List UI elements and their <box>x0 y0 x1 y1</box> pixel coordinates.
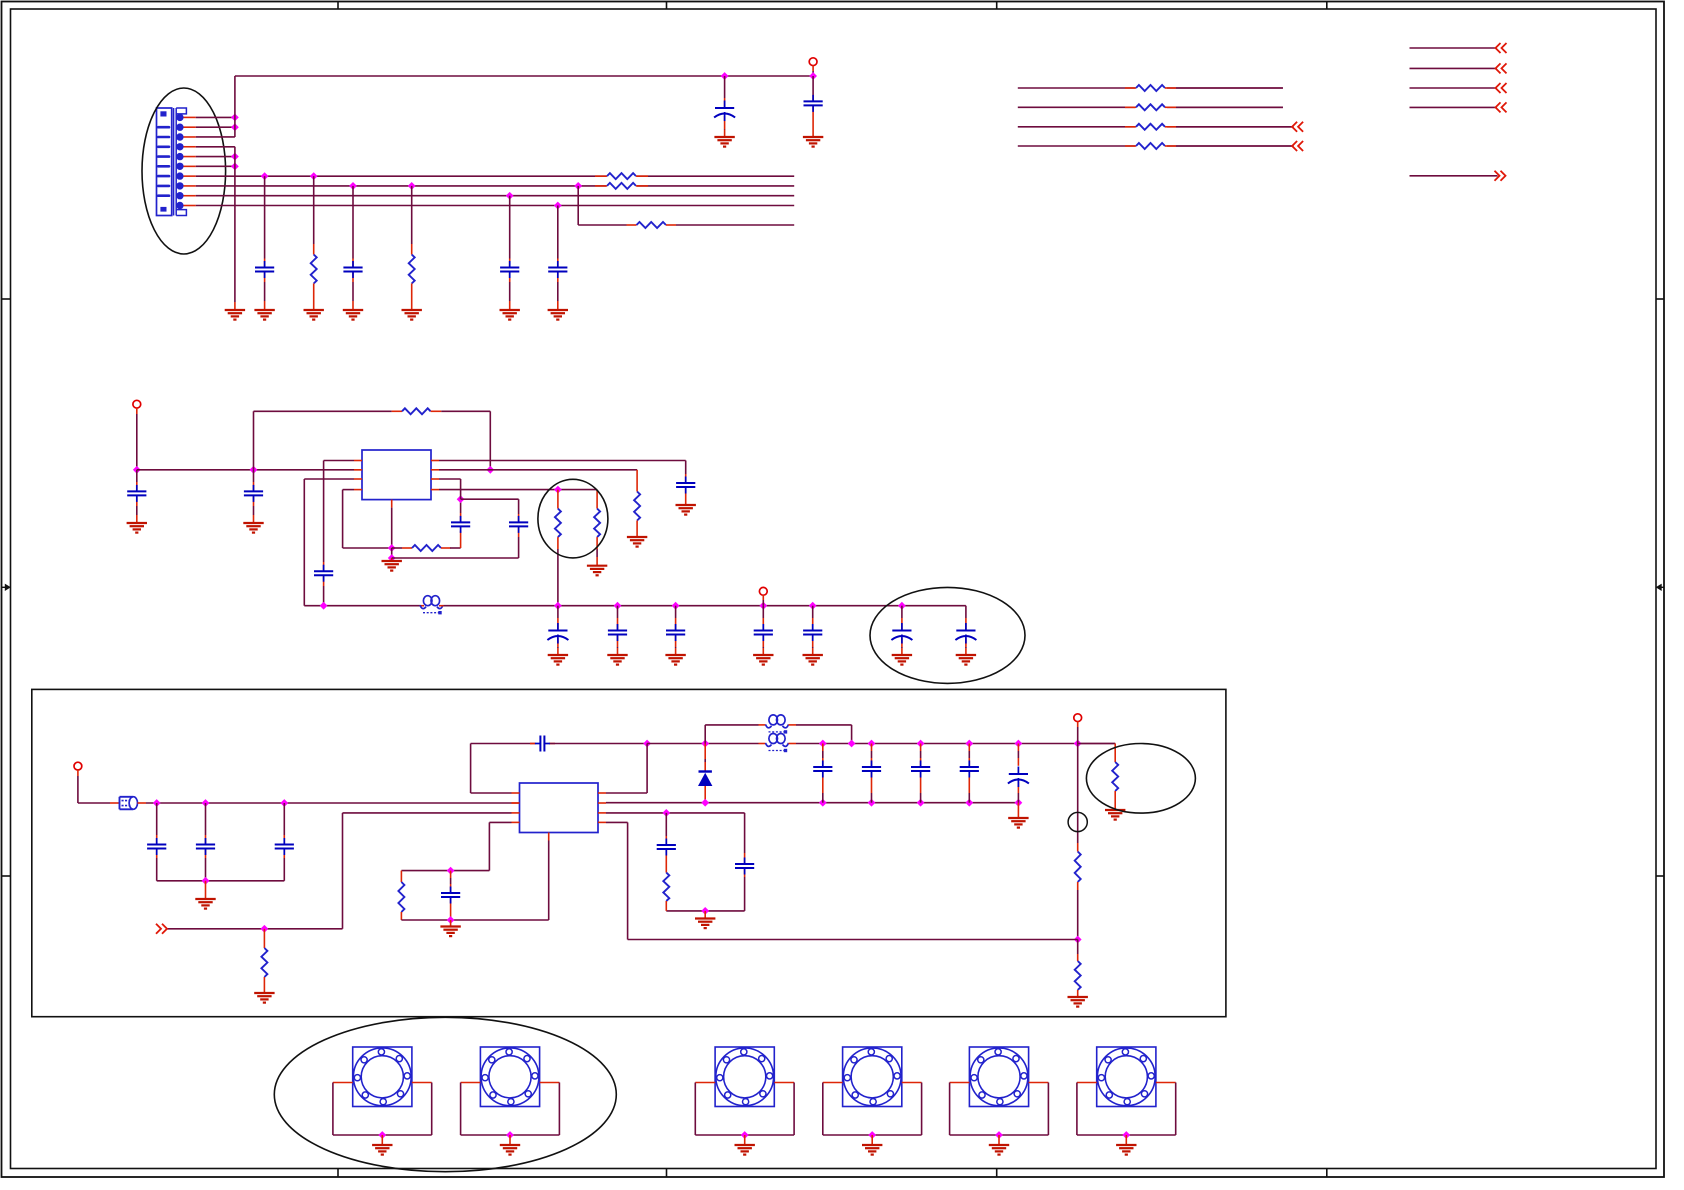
capacitor C (bus filter) at x=901.9 polarized <box>901 606 903 618</box>
capacitor at x=969.3 <box>968 744 970 752</box>
connector J1 pin 9 <box>176 192 183 199</box>
wire U1 pin L4 loop <box>343 489 354 491</box>
capacitor C15 and resistor R11 branch <box>665 813 667 836</box>
ground below B5 <box>989 1144 1009 1146</box>
connector J1 pin 5 <box>176 153 183 160</box>
wire U2 pin R1 up to feedback line <box>606 792 647 794</box>
ground below R12 <box>254 992 274 994</box>
connector J1 pin 3 <box>176 133 183 140</box>
resistor R2 on row8 <box>408 182 416 190</box>
connector J1 pin 2 <box>176 124 183 131</box>
net wire group-A row1 <box>1018 87 1283 89</box>
capacitor C4 on row8 <box>349 182 357 190</box>
ground below B1 <box>372 1144 392 1146</box>
capacitor C3 on row7 <box>261 172 269 180</box>
annotation circle on feedback node <box>1068 812 1087 831</box>
ground below C3 <box>254 309 274 311</box>
wire pin3 to node <box>196 136 235 138</box>
off-sheet connector chevron <box>1496 102 1501 112</box>
wire U1 pin R1 to capacitor C12 <box>439 460 686 462</box>
border zone ticks <box>337 2 339 10</box>
resistor R7 divider <box>596 490 598 509</box>
regulator U1 <box>362 450 431 500</box>
wire vertical pins4-6 down to ground <box>234 147 236 302</box>
output bus wire <box>304 605 420 607</box>
transducer B5 wiring <box>950 1082 970 1084</box>
ground below R5 <box>627 536 647 538</box>
power port P5 <box>1074 714 1082 722</box>
capacitor C14 snubber <box>735 863 754 865</box>
input filter capacitor at x=284.3 <box>283 803 285 835</box>
connector J1 pin 6 <box>176 163 183 170</box>
border centre arrow left <box>2 586 10 588</box>
resistor R (series) group-A row3 <box>1125 126 1136 128</box>
top rail wire <box>235 75 813 77</box>
line C down to ground <box>1017 803 1019 818</box>
connector J1 pin 7 <box>176 172 183 179</box>
capacitor at x=822.8 <box>822 744 824 752</box>
ground below C6 <box>548 309 568 311</box>
branch wire with series resistor R <box>578 224 626 226</box>
ground below C2 <box>803 136 823 138</box>
transducer B4 body <box>843 1047 902 1107</box>
ground below bus capacitor <box>956 654 976 656</box>
resistor R (series) group-A row1 <box>1125 87 1136 89</box>
capacitor at x=1018.4 polarized <box>1017 744 1019 752</box>
inductor L3 upper <box>759 724 766 726</box>
bottom rail wire <box>628 939 1078 941</box>
feedback line with series capacitor C13 <box>471 743 536 745</box>
connector J1 body <box>157 108 172 216</box>
resistor R4 compensation <box>392 547 402 549</box>
ground below B2 <box>500 1144 520 1146</box>
resistor R (series) on bus row <box>595 175 607 177</box>
off-sheet connector chevron <box>1292 141 1297 151</box>
capacitor C (bus filter) at x=557.9 polarized <box>557 606 559 618</box>
net wire group-B row3 <box>1410 87 1498 89</box>
off-sheet connector chevron right <box>1495 171 1500 181</box>
power port P4 <box>74 762 82 770</box>
resistor R (series) group-A row4 <box>1125 145 1136 147</box>
resistor R1 on row7 <box>310 172 318 180</box>
wire pin4 to node <box>196 146 235 148</box>
wire pin6 to node <box>196 165 235 167</box>
resistor R5 to ground <box>636 470 638 492</box>
off-sheet chevron input <box>156 924 161 934</box>
resistor R (series) group-A row2 <box>1125 106 1136 108</box>
junction row8 to lower branch <box>574 182 582 190</box>
ground below snubber <box>695 917 715 919</box>
off-sheet connector chevron <box>1292 122 1297 132</box>
wire pin2 to node <box>196 126 235 128</box>
power port P1 <box>809 58 817 66</box>
bus row pin8 <box>196 185 794 187</box>
capacitor C11 loop <box>461 498 519 500</box>
ground for pins4-6 net <box>225 309 245 311</box>
resistor R13 <box>400 871 402 882</box>
capacitor C (bus filter) at x=617.5 <box>617 606 619 618</box>
ground below RC network <box>440 925 460 927</box>
annotation ellipse around R10 <box>1086 744 1195 814</box>
output line C of U2 <box>606 802 1018 804</box>
U1 bottom pin to ground <box>391 500 393 508</box>
net wire group-A row3 <box>1018 126 1294 128</box>
annotation ellipse around B1 B2 <box>274 1017 616 1171</box>
capacitor C8 on rail <box>253 470 255 482</box>
transducer B6 wiring <box>1077 1082 1097 1084</box>
ground below R10 <box>1105 809 1125 811</box>
wire U1 pin L3 to bus <box>304 478 354 480</box>
transducer B3 wiring <box>695 1082 715 1084</box>
bus row pin10 <box>196 205 794 207</box>
wire U2 pin R3 snubber <box>606 812 745 814</box>
ground below C5 <box>500 309 520 311</box>
ground below line C <box>1008 817 1028 819</box>
ground below R1 <box>304 309 324 311</box>
capacitor C7 on rail <box>136 470 138 482</box>
bus row pin9 <box>196 195 794 197</box>
capacitor C5 on row9 <box>506 192 514 200</box>
wire U1 pin R3 to node <box>439 478 461 480</box>
resistor R6 divider <box>557 490 559 509</box>
ground below bus capacitor <box>548 654 568 656</box>
wire U2 pin L1 to feedback line <box>471 792 512 794</box>
transducer B1 body <box>353 1047 412 1107</box>
ground below bus capacitor <box>803 654 823 656</box>
capacitor C10 compensation <box>460 531 462 548</box>
input filter capacitor at x=205.5 <box>205 803 207 835</box>
connector J1 pin 10 <box>176 202 183 209</box>
ground below B3 <box>735 1144 755 1146</box>
wire U2 pin L3 to off-sheet input <box>343 812 512 814</box>
input capacitor common wire <box>157 880 285 882</box>
U2 bottom pin wire <box>548 833 550 841</box>
border centre arrow right <box>1657 586 1664 588</box>
net wire group-B row2 <box>1410 67 1498 69</box>
capacitor C1 (polarized) on top rail <box>724 76 726 98</box>
resistor R12 to ground <box>263 929 265 948</box>
net wire group-B row1 <box>1410 47 1498 49</box>
ground below bus capacitor <box>607 654 627 656</box>
line B to inductors <box>647 743 758 745</box>
connector J1 pin 8 <box>176 182 183 189</box>
transducer B4 wiring <box>823 1082 843 1084</box>
ground below R9 <box>1068 996 1088 998</box>
RC common wire to U2 bottom pin <box>401 919 548 921</box>
ground below R2 <box>402 309 422 311</box>
transducer B5 body <box>969 1047 1028 1107</box>
wire U2 pin L4 RC network <box>489 821 511 823</box>
capacitor C12 <box>676 482 695 484</box>
line A upper parallel inductor branch <box>704 725 706 744</box>
ground below R7 <box>587 565 607 567</box>
ground below bus capacitor <box>892 654 912 656</box>
ground below C7 <box>127 522 147 524</box>
annotation ellipse around last bus capacitors <box>870 587 1025 683</box>
ground below bus capacitor <box>665 654 685 656</box>
inductor L2 lower <box>759 743 766 745</box>
net wire group-A row2 <box>1018 106 1283 108</box>
connector J1 pin 1 <box>176 114 183 121</box>
power port P3 <box>759 587 767 595</box>
net wire group-B row5 <box>1410 175 1498 177</box>
connector J1 pin 4 <box>176 143 183 150</box>
power port P2 <box>133 400 141 408</box>
off-sheet connector chevron <box>1496 83 1501 93</box>
wire U1 pin L1 to capacitor C9 <box>324 460 354 462</box>
wire U1 pin R4 to divider <box>439 489 597 491</box>
converter U2 <box>520 783 599 833</box>
net wire group-A row4 <box>1018 145 1294 147</box>
wire vertical pins1-3 up to top rail <box>234 76 236 137</box>
capacitor at x=920.6 <box>920 744 922 752</box>
feedback divider resistor R9 <box>1077 940 1079 955</box>
capacitor C2 on top rail <box>812 76 814 95</box>
net wire group-B row4 <box>1410 106 1498 108</box>
ground below C12 <box>676 504 696 506</box>
ground below B6 <box>1116 1144 1136 1146</box>
capacitor at x=871.5 <box>871 744 873 752</box>
capacitor C (bus filter) at x=763.3 <box>762 606 764 618</box>
off-sheet connector chevron <box>1496 43 1501 53</box>
feedback divider resistor R8 <box>1077 744 1079 844</box>
capacitor C16 <box>450 871 452 878</box>
fuse F1 <box>120 796 134 798</box>
wire U1 pin R2 output <box>439 469 637 471</box>
off-sheet connector chevron <box>1496 63 1501 73</box>
capacitor C9 <box>314 570 333 572</box>
bus row pin7 <box>196 175 794 177</box>
transducer B2 body <box>480 1047 539 1107</box>
line B continues right <box>796 743 1115 745</box>
wire pin1 to node <box>196 116 235 118</box>
ground below input capacitors <box>195 898 215 900</box>
input wire to fuse F1 <box>78 802 110 804</box>
input rail to U2 <box>146 802 512 804</box>
ground below U1 <box>382 560 402 562</box>
annotation ellipse around R6 R7 <box>538 479 608 558</box>
ground below C1 <box>714 136 734 138</box>
ground below B4 <box>862 1144 882 1146</box>
ground below C4 <box>343 309 363 311</box>
ground below C8 <box>243 522 263 524</box>
transducer B1 wiring <box>333 1082 353 1084</box>
capacitor C (bus filter) at x=812.7 <box>812 606 814 618</box>
annotation ellipse around connector J1 <box>142 88 226 254</box>
wire U2 pin R4 to bottom rail <box>606 821 628 823</box>
input filter capacitor at x=156.7 <box>156 803 158 835</box>
transducer B3 body <box>715 1047 774 1107</box>
section box outline <box>32 689 1226 1016</box>
transducer B2 wiring <box>461 1082 481 1084</box>
wire pin5 to node <box>196 156 235 158</box>
rail wire to regulator U1 <box>137 469 354 471</box>
transducer B6 body <box>1097 1047 1156 1107</box>
ground below bus capacitor <box>753 654 773 656</box>
diode D1 <box>704 744 706 760</box>
capacitor C (bus filter) at x=675.6 <box>675 606 677 618</box>
capacitor C (bus filter) at x=965.9 polarized <box>965 606 967 618</box>
load resistor R10 in ellipse <box>1078 743 1116 745</box>
inductor L1 on bus <box>421 605 425 607</box>
feedback resistor R3 top loop <box>253 411 255 470</box>
capacitor C6 on row10 <box>554 202 562 210</box>
resistor R (series) on bus row <box>595 185 607 187</box>
